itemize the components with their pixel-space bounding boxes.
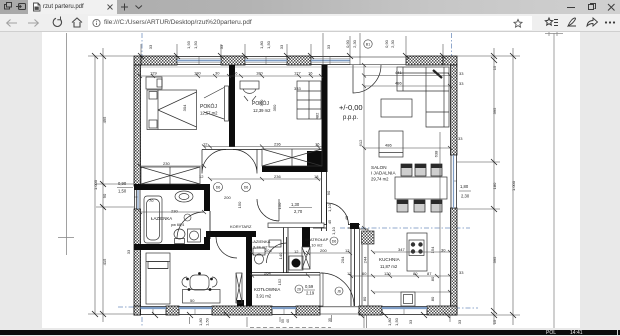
svg-text:244: 244 [363,256,368,263]
svg-text:33: 33 [126,249,131,254]
svg-text:347: 347 [398,247,405,252]
svg-text:80: 80 [430,296,435,301]
svg-text:415: 415 [102,258,107,265]
svg-text:1,50: 1,50 [205,317,210,326]
svg-text:120: 120 [384,271,391,276]
svg-text:12: 12 [294,249,299,254]
svg-text:1,80: 1,80 [198,317,203,326]
svg-text:KOTŁOWNIA: KOTŁOWNIA [254,287,280,292]
svg-text:16: 16 [315,142,320,147]
svg-text:1,80: 1,80 [259,40,264,49]
svg-text:2,30: 2,30 [461,194,470,199]
svg-text:50: 50 [190,298,195,303]
svg-text:1,80: 1,80 [387,317,392,326]
svg-text:33: 33 [326,44,331,49]
svg-text:80: 80 [362,296,367,301]
svg-text:2,30: 2,30 [390,39,395,48]
svg-text:638: 638 [434,150,439,157]
svg-text:B1: B1 [366,43,370,47]
svg-text:12,57 m2: 12,57 m2 [200,111,218,116]
svg-text:1,93: 1,93 [186,40,191,49]
svg-text:2,70: 2,70 [294,209,303,214]
svg-text:129: 129 [150,71,157,76]
svg-text:230: 230 [171,209,178,214]
svg-text:ŁAZIENKA: ŁAZIENKA [251,239,271,244]
svg-text:304: 304 [182,104,187,111]
svg-text:J6: J6 [337,290,341,294]
svg-text:33: 33 [459,81,464,86]
svg-text:15: 15 [492,65,497,70]
svg-text:230: 230 [163,161,170,166]
svg-text:33: 33 [279,44,284,49]
svg-text:180: 180 [492,182,497,189]
svg-text:33: 33 [459,71,464,76]
svg-text:150: 150 [277,202,282,209]
svg-text:29,74 m2: 29,74 m2 [371,177,389,182]
svg-text:12: 12 [347,271,352,276]
svg-text:612: 612 [358,139,363,146]
svg-text:5,10 m2: 5,10 m2 [308,243,323,248]
svg-text:16: 16 [308,71,313,76]
svg-text:35: 35 [328,318,332,322]
svg-text:1,50: 1,50 [266,40,271,49]
svg-text:200: 200 [224,195,231,200]
svg-text:350: 350 [272,104,277,111]
svg-text:1,10: 1,10 [331,226,336,235]
svg-text:180: 180 [194,71,201,76]
svg-text:140: 140 [278,252,283,259]
svg-text:90: 90 [326,190,331,195]
svg-text:482: 482 [315,112,320,119]
svg-text:11,87 m2: 11,87 m2 [380,264,398,269]
svg-text:1,50: 1,50 [118,189,127,194]
svg-text:90: 90 [102,193,107,198]
svg-text:1.000: 1.000 [511,180,516,191]
svg-text:0,90: 0,90 [384,39,389,48]
svg-text:80: 80 [413,271,418,276]
svg-text:D6: D6 [244,186,249,190]
svg-text:236: 236 [274,142,281,147]
svg-text:WIATROŁAP: WIATROŁAP [305,237,329,242]
svg-text:55: 55 [281,319,285,323]
svg-text:D6: D6 [332,240,337,244]
svg-text:3,91 m2: 3,91 m2 [256,294,272,299]
svg-text:p.p.p.: p.p.p. [343,115,358,121]
svg-text:33: 33 [219,44,224,49]
svg-text:SALON: SALON [371,165,387,170]
svg-text:264: 264 [264,271,271,276]
svg-text:12: 12 [345,248,350,253]
svg-text:150: 150 [237,201,242,208]
svg-text:ŁAZIENKA: ŁAZIENKA [151,216,172,221]
svg-text:1,80: 1,80 [460,184,469,189]
svg-text:26: 26 [233,71,238,76]
svg-text:87: 87 [427,271,432,276]
svg-text:60: 60 [362,271,367,276]
svg-text:333: 333 [294,86,301,91]
svg-text:1,10: 1,10 [327,203,332,212]
svg-text:+/-0,00: +/-0,00 [339,103,363,112]
svg-text:70: 70 [149,198,154,203]
svg-text:330: 330 [259,99,264,106]
svg-text:0,90: 0,90 [118,181,127,186]
svg-text:12: 12 [199,174,204,179]
svg-text:2,19: 2,19 [306,291,315,296]
svg-text:486: 486 [395,81,402,86]
svg-text:0,90: 0,90 [345,39,350,48]
svg-text:127: 127 [294,71,301,76]
svg-text:40: 40 [286,319,290,323]
svg-text:12: 12 [203,142,208,147]
svg-text:1,30: 1,30 [291,202,300,207]
svg-text:33: 33 [408,319,413,324]
svg-text:15: 15 [492,319,497,324]
svg-text:204: 204 [340,256,345,263]
svg-text:18: 18 [314,174,319,179]
svg-text:154: 154 [430,246,435,253]
svg-text:495: 495 [102,116,107,123]
svg-text:441: 441 [395,70,402,75]
svg-text:204: 204 [265,248,272,253]
svg-text:1,50: 1,50 [193,40,198,49]
svg-text:KUCHNIA: KUCHNIA [379,257,401,262]
svg-text:395: 395 [492,256,497,263]
svg-text:2,30: 2,30 [352,39,357,48]
svg-text:236: 236 [274,174,281,179]
svg-text:45: 45 [327,219,332,224]
svg-text:180: 180 [256,71,263,76]
svg-text:200: 200 [320,248,327,253]
svg-text:POKÓJ: POKÓJ [200,103,217,110]
svg-text:1,50: 1,50 [394,317,399,326]
svg-text:1.000: 1.000 [93,179,98,190]
svg-text:D6: D6 [216,186,221,190]
svg-text:45: 45 [344,215,349,220]
svg-text:30: 30 [215,71,220,76]
svg-text:I JADALNIA: I JADALNIA [371,171,396,176]
svg-text:33: 33 [458,136,463,141]
svg-text:0,59: 0,59 [305,284,314,289]
svg-text:152: 152 [277,278,282,285]
svg-text:80: 80 [430,276,435,281]
svg-text:26: 26 [297,288,301,292]
svg-text:33: 33 [459,270,464,275]
svg-text:33: 33 [457,319,462,324]
svg-text:12,39 m2: 12,39 m2 [253,108,271,113]
svg-text:pw 68,4: pw 68,4 [171,223,184,227]
svg-text:30: 30 [441,248,446,253]
svg-text:33: 33 [148,44,153,49]
svg-text:486: 486 [385,143,392,148]
svg-text:395: 395 [492,107,497,114]
svg-text:KORYTARZ: KORYTARZ [230,224,252,229]
